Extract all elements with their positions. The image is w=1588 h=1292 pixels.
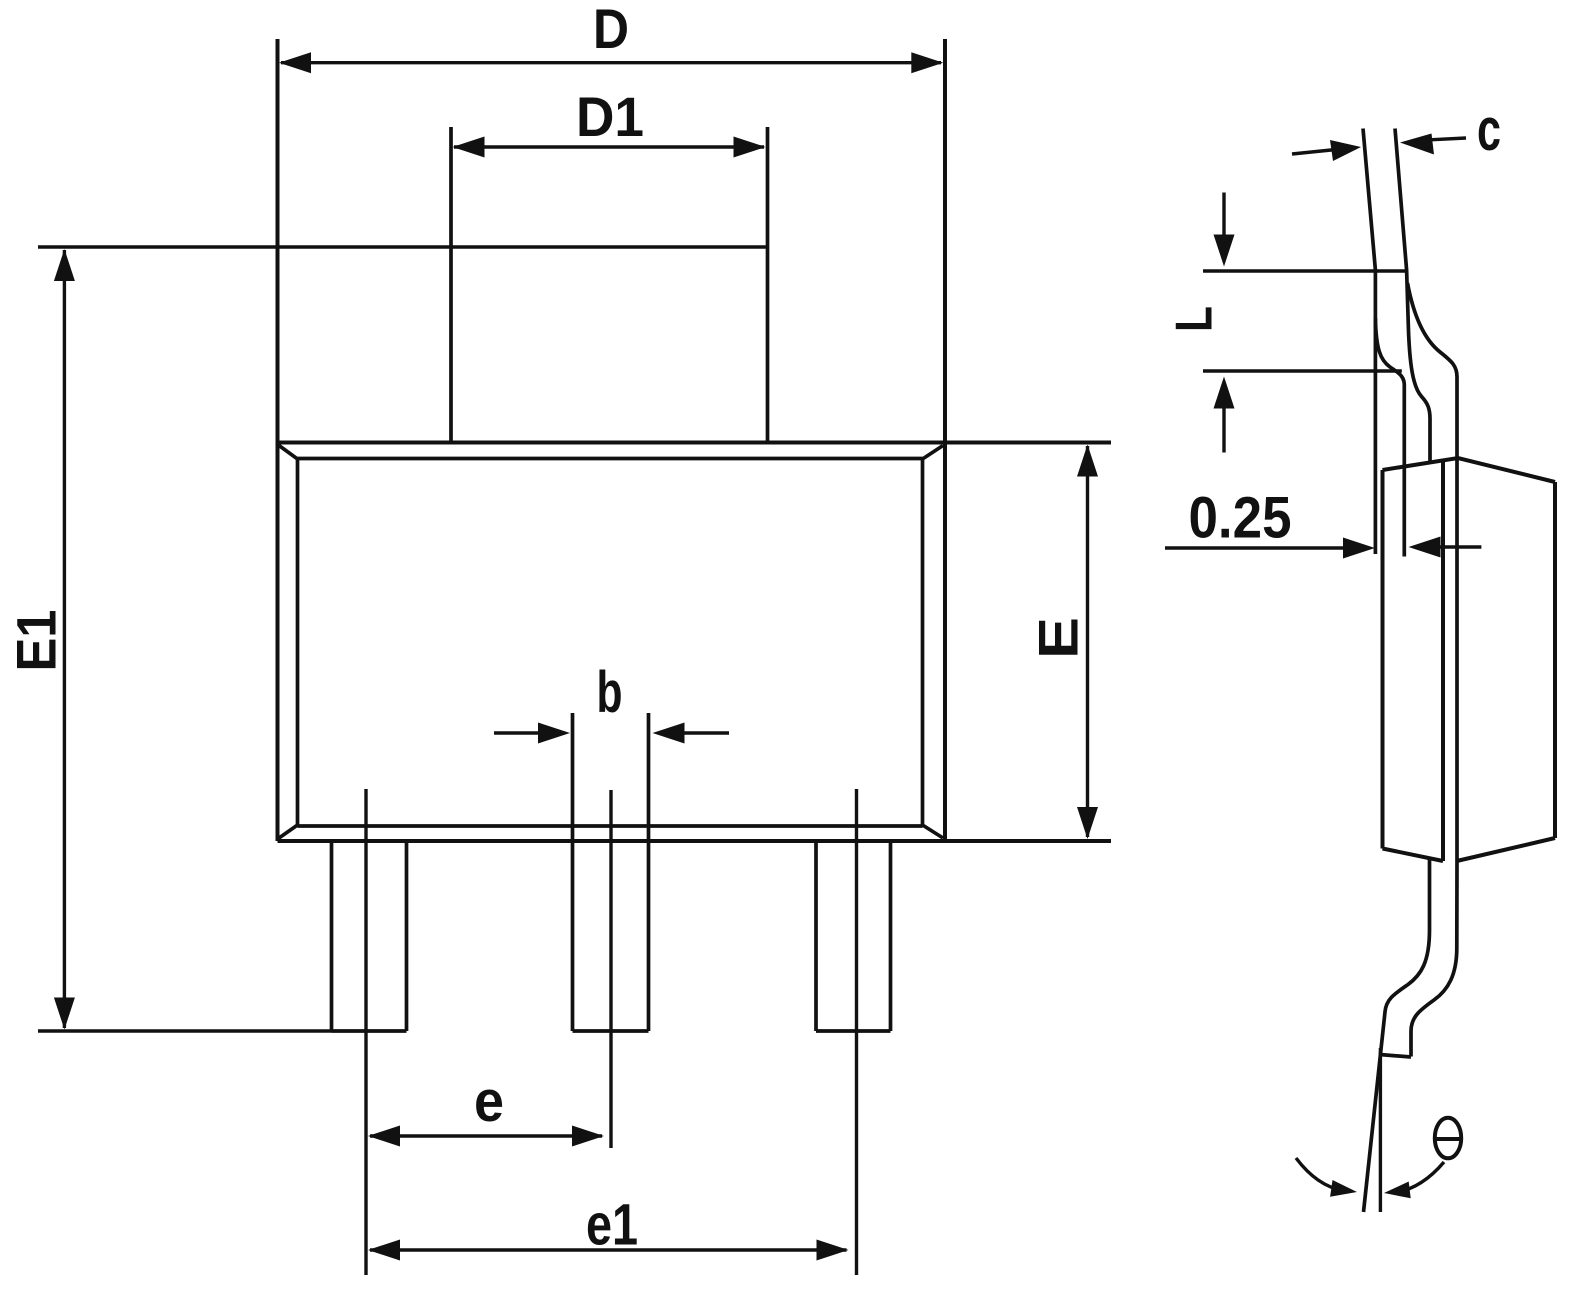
arrowhead D1 right (734, 137, 766, 158)
svg-text:D1: D1 (576, 85, 644, 148)
svg-text:c: c (1477, 96, 1501, 163)
dimension L bottom reference line (1203, 369, 1402, 372)
side view: body bottom edges (1383, 838, 1556, 861)
arrowhead e1 left (368, 1240, 400, 1261)
arrowhead D left (279, 52, 311, 73)
pin 3 center line (855, 789, 858, 1275)
arrowhead L up (1214, 377, 1235, 409)
dimension D1 line (454, 145, 764, 148)
arrowhead E down (1077, 807, 1098, 839)
arrowhead c left (pointing right) (1330, 140, 1361, 161)
arrowhead L down (1214, 235, 1235, 267)
side view: body right edge (1553, 482, 1557, 838)
svg-text:e: e (474, 1069, 504, 1134)
arrowhead E1 down (54, 998, 75, 1030)
theta right curved arrow (1396, 1162, 1444, 1193)
tab edges (top of body) (451, 127, 768, 443)
dimension E line (1086, 446, 1089, 837)
dimension e1 line (370, 1248, 847, 1251)
tab top edge / E1 top reference line (38, 245, 768, 248)
svg-text:D: D (593, 0, 629, 60)
arrowhead E up (1077, 445, 1098, 477)
side view: lead upper right-front edge (1395, 129, 1430, 464)
pin 3 (816, 843, 891, 1031)
dimension L down arrow shaft (1222, 193, 1225, 241)
arrowhead e right (572, 1126, 604, 1147)
arrowhead E1 up (54, 249, 75, 281)
arrowhead theta right curved (1384, 1182, 1411, 1199)
pin 1 center line (364, 789, 367, 1275)
arrowhead b left (pointing right) (538, 723, 570, 744)
side view: lead upper left-front curve (1375, 318, 1404, 557)
side view: body front-left edge (1381, 470, 1385, 849)
side view: lead foot bottom edge (1380, 1055, 1412, 1058)
svg-text:E1: E1 (5, 610, 68, 672)
pin 1 (332, 843, 407, 1031)
svg-text:E: E (1027, 617, 1090, 659)
arrowhead b right (pointing left) (653, 723, 685, 744)
side view: lead lower-left S-curve and theta slant line (1364, 858, 1430, 1212)
dimension e line (370, 1134, 602, 1137)
arrowhead D right (911, 52, 943, 73)
dimension E1 line (63, 250, 66, 1028)
side view: lead upper left-back edge (1363, 129, 1375, 555)
side view: body front-right vertical edge (1441, 462, 1445, 862)
arrowhead 0.25 left-pointing (1409, 537, 1441, 558)
E1 bottom reference line (38, 1029, 332, 1032)
arrowhead D1 left (453, 137, 485, 158)
svg-text:b: b (597, 660, 623, 725)
theta left curved arrow (1296, 1158, 1343, 1191)
theta glyph ellipse (1435, 1118, 1461, 1159)
dimension b arrow tails (494, 731, 729, 734)
svg-text:e1: e1 (586, 1193, 638, 1258)
svg-text:0.25: 0.25 (1189, 486, 1292, 551)
side view: lead right-back edge, body ridge and lower S-curve to foot (1408, 283, 1458, 1057)
pin 2 center line (609, 790, 612, 1148)
arrowhead c right (pointing left) (1400, 134, 1434, 155)
dimension L top reference line (1203, 269, 1407, 272)
side view: theta vertical reference line (1379, 1048, 1382, 1212)
arrowhead 0.25 right-pointing (1343, 538, 1375, 559)
dimension c right arrow tail (1430, 138, 1466, 140)
dimension c left arrow tail (1292, 150, 1336, 155)
dimension 0.25 right tail (1436, 545, 1481, 548)
package body outer outline (front view) (278, 39, 1112, 841)
arrowhead theta left curved (1330, 1180, 1357, 1197)
dimension D line (281, 61, 941, 64)
package body inner outline with chamfers (279, 446, 943, 839)
arrowhead e1 right (817, 1240, 849, 1261)
pin 2 (573, 713, 649, 1031)
arrowhead e left (368, 1126, 400, 1147)
dimension L up arrow shaft (1222, 404, 1225, 453)
svg-text:L: L (1166, 306, 1224, 332)
dimension 0.25 leader line (1165, 546, 1346, 549)
side view: body roof edges (1383, 458, 1556, 482)
